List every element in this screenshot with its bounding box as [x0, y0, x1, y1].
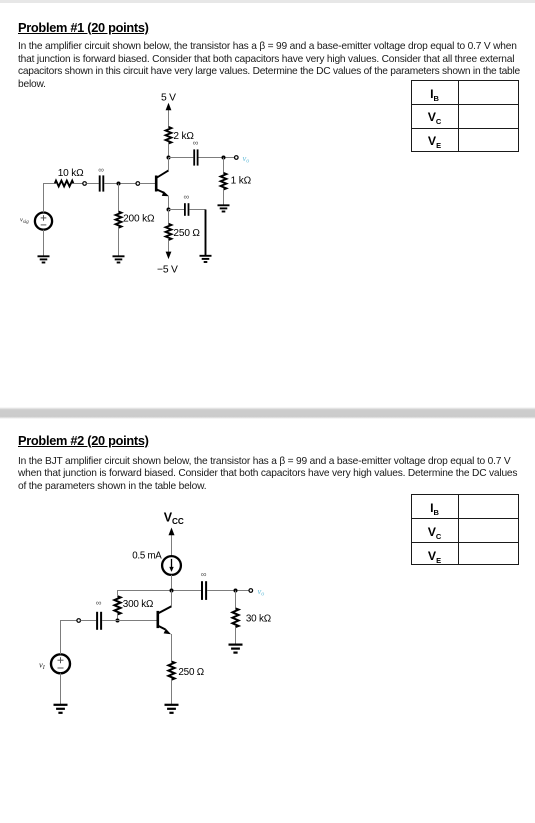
source vsig	[35, 213, 52, 230]
svg-text:250 Ω: 250 Ω	[173, 228, 200, 239]
label vo	[243, 153, 250, 165]
label VCC	[164, 511, 184, 527]
resistor R4 1 k	[221, 173, 227, 190]
label infinity C2	[193, 139, 199, 148]
wire cap to output node	[199, 157, 235, 159]
current source I1 0.5 mA	[162, 556, 181, 575]
resistor R1 2 k	[166, 127, 172, 144]
label 1 kOhm	[231, 176, 252, 187]
label 0.5 mA	[132, 551, 162, 562]
wire emitter down	[168, 196, 170, 209]
wire cap to base node	[104, 183, 136, 185]
wire collector rail	[118, 591, 202, 596]
svg-text:vo: vo	[258, 586, 265, 598]
node collector C	[167, 156, 171, 160]
svg-text:∞: ∞	[96, 599, 102, 608]
ground under 1k	[218, 205, 230, 211]
label vi	[39, 660, 46, 672]
table 1	[411, 80, 520, 152]
wire terminal to input cap	[86, 183, 98, 185]
terminal after 10k	[83, 182, 87, 186]
svg-text:−5 V: −5 V	[157, 264, 178, 275]
svg-text:300 kΩ: 300 kΩ	[123, 599, 153, 610]
ground under 30k	[229, 645, 243, 653]
wire cap to base 2	[102, 620, 157, 622]
wire terminal to base	[140, 183, 156, 185]
ground under vsig	[38, 256, 50, 262]
wire 200k to ground	[118, 228, 120, 256]
label 250 Ohm	[173, 228, 200, 239]
terminal before base	[136, 182, 140, 186]
svg-text:∞: ∞	[193, 139, 199, 148]
arrow down to -5V	[166, 240, 172, 259]
wire cap to out node	[207, 590, 249, 592]
label infinity C3	[184, 192, 190, 201]
page separator band	[0, 407, 535, 419]
wire bypass cap right	[189, 209, 205, 211]
capacitor C5 output	[202, 581, 206, 600]
wire 30k to ground	[235, 627, 237, 644]
svg-text:2 kΩ: 2 kΩ	[173, 131, 194, 142]
arrow up to 5V supply	[166, 103, 172, 127]
node output	[222, 156, 226, 160]
label 300 kOhm	[123, 599, 153, 610]
label 30 kOhm	[246, 614, 271, 625]
wire vsig to 10k	[44, 184, 55, 213]
label vsig	[20, 217, 29, 226]
wire 250 to ground c2	[171, 680, 173, 705]
terminal vo	[235, 156, 239, 160]
heading problem 2	[18, 433, 149, 448]
transistor Q2	[158, 606, 172, 634]
label infinity C1	[98, 165, 104, 174]
wire collector node to output cap	[169, 157, 194, 159]
svg-text:vo: vo	[243, 153, 250, 165]
svg-text:vI: vI	[39, 660, 46, 672]
wire output node to 1k	[223, 158, 225, 174]
label 2 kOhm	[173, 131, 194, 142]
svg-text:∞: ∞	[201, 570, 207, 579]
svg-text:1 kΩ: 1 kΩ	[231, 176, 252, 187]
label 5 V	[161, 93, 176, 104]
wire vi to terminal	[61, 621, 77, 655]
table 2	[411, 494, 520, 564]
wire source to collector rail	[171, 575, 173, 591]
label 200 kOhm	[123, 213, 155, 224]
node collector C2	[170, 589, 174, 593]
wire down to bypass ground	[205, 210, 207, 256]
label infinity C5	[201, 570, 207, 579]
node B1	[117, 182, 121, 186]
source vi	[51, 654, 70, 673]
paragraph 2	[18, 456, 510, 467]
resistor R2 10 k	[55, 181, 74, 187]
paragraph 1	[18, 41, 517, 52]
label -5 V	[157, 264, 178, 275]
capacitor C4 input	[97, 612, 101, 630]
node output O2	[234, 589, 238, 593]
svg-text:∞: ∞	[184, 192, 190, 201]
svg-text:VCC: VCC	[164, 511, 184, 527]
svg-text:∞: ∞	[98, 165, 104, 174]
arrow up VCC	[169, 528, 175, 557]
wire 2k to collector node	[168, 144, 170, 158]
terminal vo2	[249, 589, 253, 593]
wire node to 30k	[235, 591, 237, 609]
svg-text:200 kΩ: 200 kΩ	[123, 213, 155, 224]
wire to input cap 2	[81, 620, 97, 622]
wire collector up	[168, 158, 170, 171]
wire emitter node to 250	[168, 210, 170, 224]
label 10 kOhm	[58, 168, 84, 179]
transistor Q1	[156, 170, 169, 196]
capacitor C2 output	[194, 149, 197, 165]
wire collector 2 down	[171, 591, 173, 607]
capacitor C3 bypass	[185, 203, 189, 216]
wire node to 200k	[118, 184, 120, 212]
node base B2	[116, 619, 120, 623]
resistor R6 300 k feedback	[114, 596, 120, 614]
resistor R5 250	[166, 224, 172, 240]
wire emitter node to bypass cap	[169, 209, 185, 211]
heading problem 1	[18, 20, 149, 35]
wire vi to ground	[60, 673, 62, 704]
svg-text:0.5 mA: 0.5 mA	[132, 551, 162, 562]
svg-text:30 kΩ: 30 kΩ	[246, 614, 271, 625]
resistor R8 250 c2	[168, 662, 174, 680]
wire emitter 2 down	[171, 634, 173, 662]
label infinity C4	[96, 599, 102, 608]
ground under vi	[54, 705, 68, 713]
svg-text:5 V: 5 V	[161, 93, 176, 104]
top gray strip	[0, 0, 535, 3]
ground under bypass	[200, 256, 212, 262]
wire 1k to ground	[223, 190, 225, 206]
resistor R3 200 k	[116, 212, 122, 228]
capacitor C1 input	[100, 175, 104, 191]
ground under 250 c2	[165, 705, 179, 713]
terminal input 2	[77, 619, 81, 623]
ground under 200k	[113, 256, 125, 262]
wire 10k to terminal	[73, 183, 82, 185]
label 250 Ohm c2	[178, 667, 204, 678]
node emitter E	[167, 208, 171, 212]
label vo2	[258, 586, 265, 598]
wire 300k to base node	[117, 614, 119, 620]
svg-text:vsig: vsig	[20, 217, 29, 226]
svg-text:250 Ω: 250 Ω	[178, 667, 204, 678]
wire vsig to ground	[43, 230, 45, 256]
resistor R7 30 k	[232, 608, 238, 627]
svg-text:10 kΩ: 10 kΩ	[58, 168, 84, 179]
